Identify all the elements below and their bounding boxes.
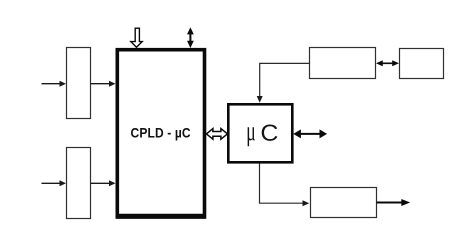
block peripheral B (top far right) bbox=[400, 49, 444, 79]
label C (of µC) bbox=[262, 125, 278, 141]
wire µC down to output stage bbox=[260, 164, 310, 207]
wire arrow input1 to stage1 bbox=[42, 81, 67, 87]
wire arrow stage2 to CPLD bbox=[91, 180, 116, 186]
hollow download arrow into CPLD top bbox=[131, 28, 142, 47]
double-headed vertical arrow on CPLD top bbox=[187, 27, 194, 48]
wire arrow output stage to right bbox=[377, 199, 411, 206]
block peripheral A (top right) bbox=[310, 48, 376, 79]
block U1 CPLD main box bbox=[116, 50, 206, 217]
block U2 microcontroller box bbox=[228, 104, 292, 162]
block input stage 1 (upper left) bbox=[67, 48, 91, 119]
svg-text:CPLD - µC: CPLD - µC bbox=[131, 125, 191, 141]
double-headed arrow peripheral A to peripheral B bbox=[376, 60, 399, 66]
wire peripheral A to µC (left then down) bbox=[257, 63, 310, 102]
wire arrow stage1 to CPLD bbox=[91, 81, 116, 87]
label µ (micro sign of µC) bbox=[248, 127, 255, 146]
double-headed arrow µC to right bbox=[293, 129, 327, 138]
hollow double arrow CPLD to µC bbox=[206, 129, 227, 140]
block output stage (bottom right) bbox=[311, 188, 377, 218]
wire arrow input2 to stage2 bbox=[42, 180, 67, 186]
block input stage 2 (lower left) bbox=[67, 148, 91, 219]
